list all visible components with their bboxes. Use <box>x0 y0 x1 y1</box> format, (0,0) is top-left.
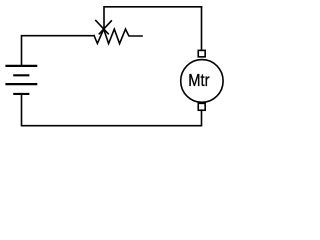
svg-text:Mtr: Mtr <box>188 71 210 91</box>
